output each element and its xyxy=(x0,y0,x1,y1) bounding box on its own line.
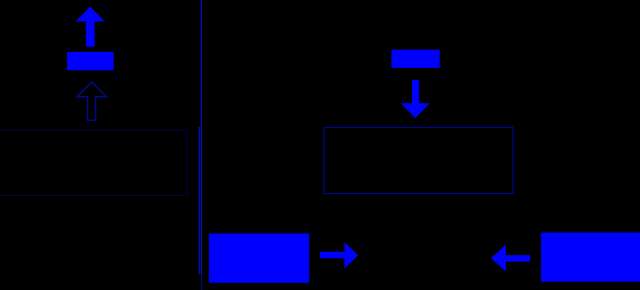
middle outlined rectangle xyxy=(324,127,513,193)
bottom right blue box xyxy=(541,233,640,282)
left-pointing arrow xyxy=(491,245,530,272)
hollow up arrow xyxy=(77,82,106,120)
bottom left blue box xyxy=(209,234,309,283)
blue bar left xyxy=(67,52,114,71)
divider line second xyxy=(199,127,200,274)
blue bar right xyxy=(391,50,439,68)
filled down arrow xyxy=(401,80,430,118)
left outlined rectangle xyxy=(0,130,188,195)
divider line main xyxy=(201,0,202,274)
right-pointing arrow xyxy=(320,242,358,269)
filled up arrow (top left) xyxy=(76,7,105,47)
divider line dim tail xyxy=(201,274,202,290)
